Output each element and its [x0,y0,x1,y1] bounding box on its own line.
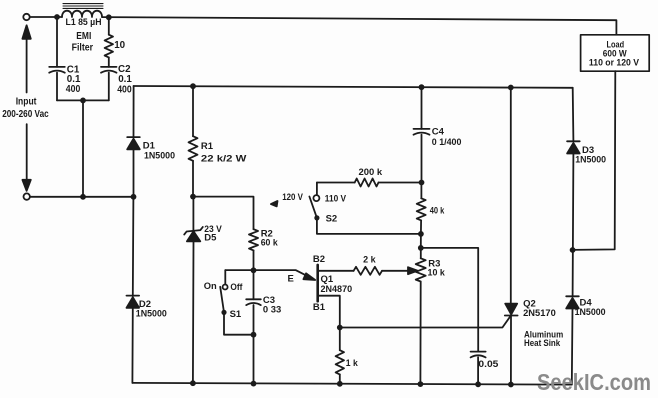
svg-text:2N4870: 2N4870 [321,284,353,295]
svg-text:E: E [288,273,294,284]
svg-text:R1: R1 [201,141,214,152]
svg-text:2 k: 2 k [363,254,376,265]
svg-text:40 k: 40 k [430,206,445,217]
svg-text:110 or 120 V: 110 or 120 V [589,58,640,68]
svg-text:110 V: 110 V [325,194,347,205]
svg-text:On: On [204,281,217,292]
svg-text:Off: Off [230,282,243,293]
svg-text:S2: S2 [326,214,338,225]
svg-text:400: 400 [117,84,132,95]
svg-text:D5: D5 [204,233,217,244]
svg-text:Input: Input [16,97,37,108]
svg-text:200-260 Vac: 200-260 Vac [2,109,49,120]
svg-text:10: 10 [114,40,125,51]
svg-text:C4: C4 [432,126,445,137]
svg-text:60 k: 60 k [261,237,279,248]
svg-text:1N5000: 1N5000 [136,308,167,319]
svg-text:120 V: 120 V [282,192,303,203]
svg-text:400: 400 [66,84,81,95]
svg-text:B1: B1 [313,302,326,313]
svg-text:0.05: 0.05 [478,359,499,370]
svg-text:L1 85 µH: L1 85 µH [66,17,102,28]
svg-text:1N5000: 1N5000 [144,150,175,161]
svg-text:1N5000: 1N5000 [575,307,606,318]
svg-text:1N5000: 1N5000 [575,155,606,166]
svg-text:1 k: 1 k [346,358,359,369]
svg-text:200 k: 200 k [359,167,383,178]
svg-text:B2: B2 [313,254,325,265]
svg-text:2N5170: 2N5170 [523,308,556,319]
svg-text:Heat Sink: Heat Sink [524,338,561,348]
svg-text:0 33: 0 33 [263,304,281,315]
svg-text:Filter: Filter [72,43,94,54]
svg-text:22 k/2 W: 22 k/2 W [201,153,247,164]
svg-text:S1: S1 [230,309,242,320]
svg-text:EMI: EMI [76,31,91,42]
svg-text:10 k: 10 k [428,267,446,278]
svg-text:0 1/400: 0 1/400 [432,137,462,148]
svg-text:SeekIC.com: SeekIC.com [537,369,651,395]
